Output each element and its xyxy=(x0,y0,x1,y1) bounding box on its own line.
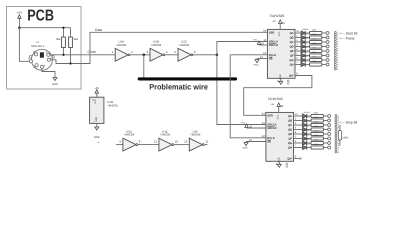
svg-text:10: 10 xyxy=(249,125,252,128)
svg-text:74HC04: 74HC04 xyxy=(124,133,135,137)
svg-text:1N4148: 1N4148 xyxy=(302,46,308,49)
node R1 top junction xyxy=(62,27,64,29)
SRCLR1 tied to +5V (pin10) xyxy=(253,38,267,45)
diode LED row xyxy=(301,62,305,66)
wire 1 output stub xyxy=(295,37,301,39)
svg-text:SRCLR: SRCLR xyxy=(269,44,278,47)
resistor 330R row xyxy=(310,63,322,66)
wire resistor to pad xyxy=(324,129,328,131)
svg-text:330R: 330R xyxy=(312,51,317,54)
inverter U1F 74HC04 xyxy=(184,129,209,151)
wire diode to resistor xyxy=(305,46,309,48)
wire 2 output stub xyxy=(295,41,301,43)
wire diode to resistor xyxy=(305,32,309,34)
diode LED row xyxy=(301,58,305,62)
problematic wire (thick highlighted net) xyxy=(139,77,235,80)
svg-text:GND: GND xyxy=(95,116,98,121)
svg-text:SER: SER xyxy=(267,114,273,117)
connector J1 MINI-DIN-6 xyxy=(28,41,54,70)
svg-text:+5V: +5V xyxy=(272,20,276,23)
wire QH'1 to IC2 SER (cascade) xyxy=(244,73,312,116)
svg-text:330R: 330R xyxy=(314,129,319,132)
connector pad circle xyxy=(328,124,331,127)
svg-text:QH: QH xyxy=(288,147,292,150)
svg-text:Problematic wire: Problematic wire xyxy=(149,82,208,91)
svg-text:SER: SER xyxy=(269,31,275,34)
wire 4 output stub xyxy=(294,133,303,135)
svg-text:330R: 330R xyxy=(314,134,319,137)
diode LED row xyxy=(301,31,305,35)
wire diode to resistor xyxy=(307,124,311,126)
svg-text:16: 16 xyxy=(280,105,283,108)
resistor 330R row xyxy=(311,146,323,149)
svg-text:QF: QF xyxy=(288,138,292,141)
SRCLR2 tied to +5V (pin10) xyxy=(241,121,266,128)
svg-text:QC: QC xyxy=(288,124,292,127)
OE2 tied to GND (pin13) xyxy=(243,139,266,150)
wire diode to resistor xyxy=(307,129,311,131)
svg-text:330R: 330R xyxy=(314,116,319,119)
wire resistor to pad xyxy=(324,138,328,140)
svg-text:2k2: 2k2 xyxy=(74,37,79,41)
svg-text:330R: 330R xyxy=(312,55,317,58)
wire 4 output stub xyxy=(295,50,301,52)
svg-text:QE: QE xyxy=(290,50,294,53)
wire resistor to pad xyxy=(324,142,328,144)
wire U1E out to U1F in xyxy=(174,144,190,146)
svg-text:1N4148: 1N4148 xyxy=(304,120,310,123)
wire resistor to pad xyxy=(322,50,326,52)
diode LED row xyxy=(303,118,307,122)
wire resistor to pad xyxy=(322,37,326,39)
wire 2 output stub xyxy=(294,124,303,126)
svg-text:<--- Parity: <--- Parity xyxy=(340,36,355,40)
output row U3 QH xyxy=(294,143,331,150)
wire diode to resistor xyxy=(305,64,309,66)
resistor R1 2k2 (clock pull-up) xyxy=(56,28,65,55)
connector pad circle xyxy=(328,146,331,149)
+5V supply symbol (U1G) xyxy=(94,87,99,97)
svg-text:<--- Stop bit: <--- Stop bit xyxy=(340,121,358,125)
svg-text:OE: OE xyxy=(269,58,273,61)
diode LED row xyxy=(301,44,305,48)
svg-text:11: 11 xyxy=(154,140,157,144)
svg-text:12: 12 xyxy=(205,140,209,144)
svg-text:74xHC595: 74xHC595 xyxy=(269,14,284,18)
connector pad circle xyxy=(326,54,329,57)
connector pad circle xyxy=(328,119,331,122)
wire diode to resistor xyxy=(307,120,311,122)
svg-text:QB: QB xyxy=(290,37,294,40)
diode LED row xyxy=(303,114,307,118)
svg-text:Data: Data xyxy=(95,28,102,32)
wire 7 output stub xyxy=(295,64,301,66)
svg-text:330R: 330R xyxy=(314,125,319,128)
resistor 330R row xyxy=(310,54,322,57)
svg-text:1N4148: 1N4148 xyxy=(302,28,308,31)
svg-text:MINI-DIN-6: MINI-DIN-6 xyxy=(31,45,45,48)
connector pad circle xyxy=(328,137,331,140)
wire 6 output stub xyxy=(295,59,301,61)
wire Clock net (J1 pin5 to U1A input) xyxy=(50,54,115,56)
node stray dot xyxy=(98,142,99,143)
wire resistor to pad xyxy=(322,59,326,61)
node data/R2 junction xyxy=(69,62,71,64)
svg-text:PCB: PCB xyxy=(27,8,54,25)
svg-text:QG: QG xyxy=(288,142,292,145)
svg-text:1N4148: 1N4148 xyxy=(304,134,310,137)
svg-text:1N4148: 1N4148 xyxy=(302,60,308,63)
wire resistor to pad xyxy=(322,64,326,66)
output row U3 QB xyxy=(294,116,331,123)
diode LED row xyxy=(303,136,307,140)
svg-text:13: 13 xyxy=(260,56,263,59)
wire resistor to pad xyxy=(324,115,328,117)
inverter U1A 74HC04 xyxy=(112,40,133,62)
inverter U1D 74HC04 xyxy=(119,129,140,151)
IC U3 74xHC595 shift register xyxy=(266,97,294,162)
svg-text:74xHC595: 74xHC595 xyxy=(268,97,283,101)
wire diode to resistor xyxy=(307,133,311,135)
svg-text:13: 13 xyxy=(184,140,188,144)
connector pad circle xyxy=(328,142,331,145)
svg-text:QF: QF xyxy=(290,55,294,58)
connector pad circle xyxy=(328,115,331,118)
svg-text:330R: 330R xyxy=(312,60,317,63)
wire 3 output stub xyxy=(294,129,303,131)
diode LED row xyxy=(303,145,307,149)
wire 1 output stub xyxy=(294,120,303,122)
diode LED row xyxy=(303,123,307,127)
wire 3 output stub xyxy=(295,46,301,48)
connector pad circle xyxy=(328,133,331,136)
svg-text:330R: 330R xyxy=(312,37,317,40)
svg-text:1N4148: 1N4148 xyxy=(304,111,310,114)
resistor 330R row xyxy=(310,31,322,34)
node U1A output junction xyxy=(143,54,146,57)
svg-text:330R: 330R xyxy=(312,28,317,31)
resistor 330R row xyxy=(310,58,322,61)
svg-text:QE: QE xyxy=(288,133,292,136)
svg-text:1N4148: 1N4148 xyxy=(304,138,310,141)
resistor 330R row xyxy=(310,36,322,39)
svg-text:330R: 330R xyxy=(312,46,317,49)
svg-text:VCC: VCC xyxy=(278,31,281,36)
output row U2 QE xyxy=(295,46,329,53)
wire resistor to pad xyxy=(322,55,326,57)
svg-text:SRCLR: SRCLR xyxy=(267,127,276,130)
wire stub into U1D xyxy=(116,144,123,146)
wire diode to resistor xyxy=(307,138,311,140)
ground symbol (U3 GND pin8) xyxy=(276,161,288,167)
svg-text:12: 12 xyxy=(262,134,266,138)
output row U2 QF xyxy=(295,51,329,58)
inverter U1B 74HC04 xyxy=(146,40,167,62)
svg-text:QD: QD xyxy=(288,129,292,132)
svg-text:1N4148: 1N4148 xyxy=(304,143,310,146)
resistor 330R row xyxy=(310,45,322,48)
PCB outline box xyxy=(7,7,82,90)
wire U1B input down to problematic wire xyxy=(143,55,145,79)
svg-text:1N4148: 1N4148 xyxy=(302,42,308,45)
svg-text:QD: QD xyxy=(290,46,294,49)
svg-text:12: 12 xyxy=(263,51,267,55)
svg-text:GND: GND xyxy=(52,83,58,86)
svg-text:11: 11 xyxy=(262,121,265,125)
wire resistor to pad xyxy=(324,120,328,122)
svg-text:+5V: +5V xyxy=(253,38,257,41)
output row U2 QD xyxy=(295,42,329,49)
svg-text:74HC04: 74HC04 xyxy=(107,104,118,108)
pin header pads column (upper) xyxy=(334,31,338,70)
wire +5V to connector pin 4 xyxy=(19,28,29,62)
diode LED row xyxy=(301,35,305,39)
inverter U1E 74HC04 xyxy=(154,129,178,151)
wire Data net (J1 pin1 to IC1 SER pin14) xyxy=(50,32,267,63)
wire SRCLK net to IC1 pin11 xyxy=(217,42,268,55)
svg-text:330R: 330R xyxy=(314,143,319,146)
svg-text:1N4148: 1N4148 xyxy=(302,51,308,54)
ground symbol (U2 GND pin8) xyxy=(277,78,289,84)
resistor 330R row xyxy=(311,123,323,126)
svg-text:GND: GND xyxy=(277,157,280,162)
svg-text:13: 13 xyxy=(249,139,252,142)
wire QH'2 stub (pin9) xyxy=(294,156,302,160)
wire 7 output stub xyxy=(294,147,303,149)
wire RCLK net to IC1 pin12 xyxy=(230,54,267,56)
wire U1F out stub xyxy=(204,144,207,146)
output row U2 QH xyxy=(295,60,329,67)
wire 15 output stub xyxy=(294,115,303,117)
svg-text:VCC: VCC xyxy=(277,114,280,119)
output row U3 QA xyxy=(294,111,331,118)
resistor 330R row xyxy=(311,114,323,117)
svg-text:+5V: +5V xyxy=(270,103,274,106)
wire U1D out to U1E in xyxy=(138,144,159,146)
svg-text:2k2: 2k2 xyxy=(56,37,61,41)
output row U3 QE xyxy=(294,129,331,136)
svg-text:330R: 330R xyxy=(314,111,319,114)
wire resistor to pad xyxy=(324,124,328,126)
connector pad circle xyxy=(326,50,329,53)
inverter U1C 74HC04 xyxy=(174,40,195,62)
power gate U1G 74HC04 (VCC/GND) xyxy=(90,97,118,123)
wire diode to resistor xyxy=(307,115,311,117)
resistor 330R row xyxy=(310,40,322,43)
node SRCLK junction xyxy=(216,54,219,57)
svg-text:+5V: +5V xyxy=(241,121,245,124)
resistor 330R row xyxy=(311,137,323,140)
svg-text:Clock: Clock xyxy=(88,50,97,54)
connector pad circle xyxy=(326,36,329,39)
svg-text:<--- Start bit: <--- Start bit xyxy=(340,32,358,36)
svg-text:QC: QC xyxy=(290,41,294,44)
wire diode to resistor xyxy=(305,50,309,52)
diode LED row xyxy=(301,40,305,44)
wire diode to resistor xyxy=(307,147,311,149)
wire resistor to pad xyxy=(322,41,326,43)
+5V supply symbol (PCB) xyxy=(17,11,22,28)
ground GND (PCB connector shield) xyxy=(42,69,58,86)
output row U3 QF xyxy=(294,134,331,141)
svg-text:100K: 100K xyxy=(342,136,348,139)
svg-text:330R: 330R xyxy=(312,33,317,36)
svg-text:74HC04: 74HC04 xyxy=(116,43,127,47)
svg-text:1N4148: 1N4148 xyxy=(302,37,308,40)
wire 5 output stub xyxy=(294,138,303,140)
svg-text:QA: QA xyxy=(288,115,292,118)
svg-text:74HC04: 74HC04 xyxy=(179,43,190,47)
wire diode to resistor xyxy=(305,41,309,43)
wire resistor to pad xyxy=(322,46,326,48)
wire 6 output stub xyxy=(294,142,303,144)
svg-text:GND: GND xyxy=(94,136,100,139)
svg-text:VCC: VCC xyxy=(94,99,97,104)
svg-text:QB: QB xyxy=(288,120,292,123)
svg-text:GND: GND xyxy=(254,64,259,67)
wire diode to resistor xyxy=(307,142,311,144)
svg-text:10: 10 xyxy=(175,140,179,144)
wire U1C out to SRCLK node xyxy=(193,54,217,56)
diode LED row xyxy=(303,132,307,136)
diode LED row xyxy=(301,53,305,57)
wire SRCLK net to IC2 pin11 xyxy=(217,55,266,125)
svg-text:330R: 330R xyxy=(314,120,319,123)
resistor R2 2k2 (data pull-up) xyxy=(69,28,79,64)
svg-text:14: 14 xyxy=(262,112,266,116)
connector pad circle xyxy=(326,32,329,35)
connector pad circle xyxy=(326,59,329,62)
svg-text:GND: GND xyxy=(243,147,248,150)
svg-text:QH: QH xyxy=(290,64,294,67)
connector pad circle xyxy=(326,41,329,44)
resistor 330R row xyxy=(311,128,323,131)
svg-text:16: 16 xyxy=(282,22,285,25)
svg-text:74HC04: 74HC04 xyxy=(190,133,201,137)
resistor 330R row xyxy=(310,49,322,52)
output row U3 QC xyxy=(294,120,331,127)
svg-text:OE: OE xyxy=(267,141,271,144)
wire U1B out to U1C in xyxy=(165,54,178,56)
wire +5V rail xyxy=(19,27,70,29)
diode LED row xyxy=(303,127,307,131)
resistor 330R row xyxy=(311,119,323,122)
svg-text:1N4148: 1N4148 xyxy=(302,33,308,36)
svg-text:QA: QA xyxy=(290,32,294,35)
+5V supply symbol (U2 VCC pin16) xyxy=(272,20,285,30)
node clock/R1 junction xyxy=(62,54,64,56)
wire diode to resistor xyxy=(305,59,309,61)
connector pad circle xyxy=(328,128,331,131)
node +5V junction xyxy=(18,26,21,29)
pin header pads column (lower) xyxy=(335,114,339,153)
svg-text:330R: 330R xyxy=(312,42,317,45)
wire RCLK net vertical to IC2 pin12 xyxy=(230,55,266,138)
diode LED row xyxy=(303,141,307,145)
svg-text:1N4148: 1N4148 xyxy=(304,125,310,128)
ground symbol (U1G) xyxy=(94,123,100,139)
wire 15 output stub xyxy=(295,32,301,34)
output row U3 QG xyxy=(294,138,331,145)
output row U2 QC xyxy=(295,37,329,44)
wire resistor to pad xyxy=(324,133,328,135)
svg-text:1N4148: 1N4148 xyxy=(302,55,308,58)
wire diode to resistor xyxy=(305,37,309,39)
svg-text:1N4148: 1N4148 xyxy=(304,129,310,132)
OE1 tied to GND (pin13) xyxy=(254,56,268,67)
svg-text:330R: 330R xyxy=(314,138,319,141)
resistor 330R row xyxy=(311,132,323,135)
output row U2 QG xyxy=(295,55,329,62)
svg-text:QG: QG xyxy=(289,59,293,62)
output row U2 QA xyxy=(295,28,329,35)
output row U2 QB xyxy=(295,33,329,40)
connector pad circle xyxy=(326,45,329,48)
svg-text:10: 10 xyxy=(261,42,264,45)
svg-text:14: 14 xyxy=(263,29,267,33)
svg-text:8: 8 xyxy=(337,68,338,71)
output row U3 QD xyxy=(294,125,331,132)
svg-text:11: 11 xyxy=(263,38,266,42)
wire diode to resistor xyxy=(305,55,309,57)
svg-text:74HC04: 74HC04 xyxy=(160,133,171,137)
svg-text:QH': QH' xyxy=(287,158,292,161)
wire U1A out to U1B in xyxy=(130,54,150,56)
wire 5 output stub xyxy=(295,55,301,57)
resistor 330R row xyxy=(311,141,323,144)
svg-text:1N4148: 1N4148 xyxy=(304,116,310,119)
svg-text:+5V: +5V xyxy=(17,11,22,15)
diode LED row xyxy=(301,49,305,53)
connector pad circle xyxy=(326,63,329,66)
wire resistor to pad xyxy=(322,32,326,34)
svg-text:8: 8 xyxy=(338,151,339,154)
resistor R19 100K pull-down xyxy=(338,125,348,146)
IC U2 74xHC595 shift register xyxy=(267,14,295,79)
wire resistor to pad xyxy=(324,147,328,149)
svg-text:74HC04: 74HC04 xyxy=(151,43,162,47)
svg-text:QH': QH' xyxy=(289,75,294,78)
+5V supply symbol (U3 VCC pin16) xyxy=(270,103,283,113)
svg-text:GND: GND xyxy=(279,74,282,79)
